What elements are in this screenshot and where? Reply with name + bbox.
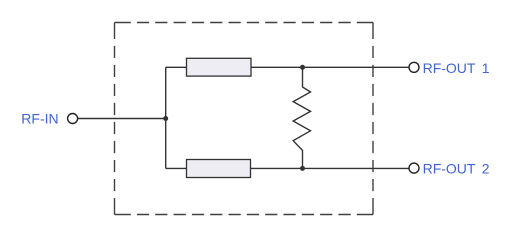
svg-text:2: 2 bbox=[482, 161, 490, 177]
svg-text:RF-IN: RF-IN bbox=[21, 110, 58, 126]
svg-text:RF-OUT: RF-OUT bbox=[423, 161, 476, 177]
svg-text:RF-OUT: RF-OUT bbox=[423, 60, 476, 76]
svg-text:1: 1 bbox=[482, 60, 490, 76]
